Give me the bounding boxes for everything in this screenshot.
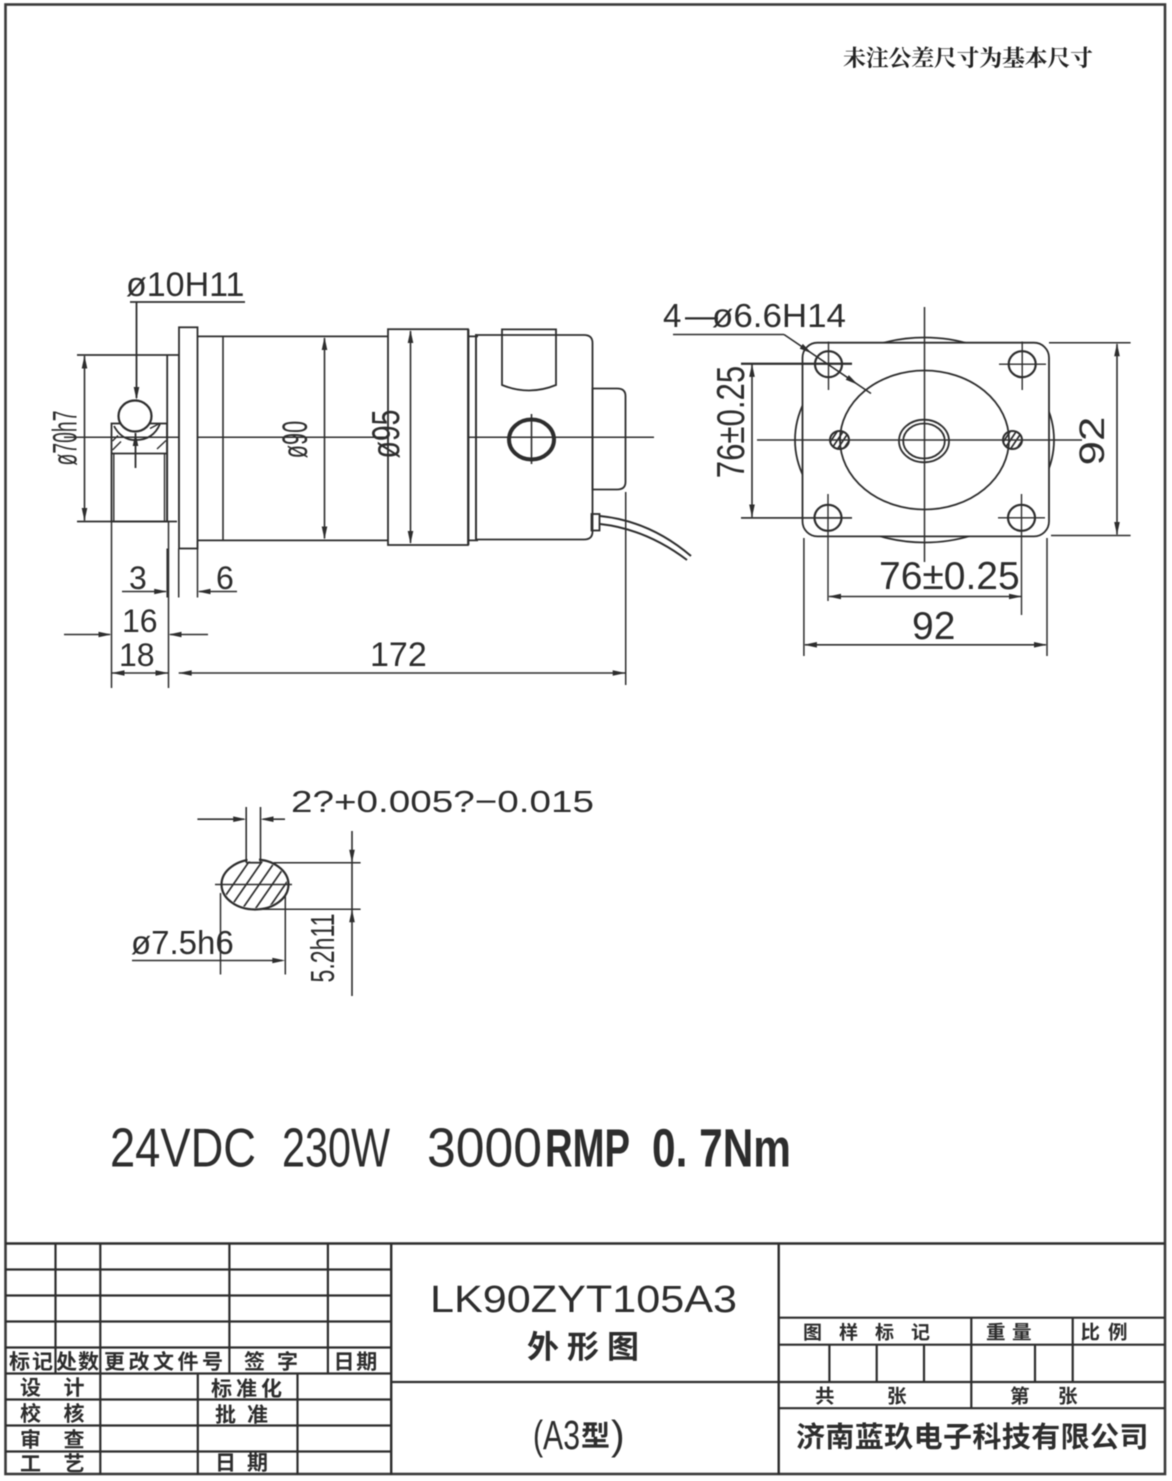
motor body ø90 cylinder (198, 336, 479, 540)
output shaft cross-section with keyway (222, 807, 289, 910)
mounting hole top-right ø6.6 (999, 342, 1046, 391)
dimension 76±0.25 (horizontal) (828, 555, 1022, 599)
dimension keyway width 2 +0.005/-0.015 (197, 784, 594, 822)
rear end cover box (593, 389, 626, 490)
front view: vertical center line (924, 307, 926, 562)
variant label (A3型) (533, 1412, 625, 1458)
svg-text:24VDC: 24VDC (110, 1117, 256, 1179)
svg-text:6: 6 (216, 560, 234, 596)
dimension 92 (vertical) (1049, 343, 1131, 536)
svg-text:(A3: (A3 (533, 1412, 580, 1458)
svg-text:ø70h7: ø70h7 (46, 411, 84, 466)
drawing title 外形图 (528, 1331, 637, 1361)
svg-text:ø7.5h6: ø7.5h6 (131, 924, 234, 961)
company name 济南蓝玖电子科技有限公司 (797, 1422, 1146, 1450)
bearing ball (119, 401, 152, 432)
dimension ø10H11 with leader arrows (126, 266, 245, 468)
dimension 4-ø6.6H14 with leader (663, 297, 871, 394)
center shaft hole (double circle) (899, 420, 949, 463)
front flange square plate (803, 343, 1050, 537)
svg-text:92: 92 (912, 605, 955, 648)
flange spigot ring (ø70 pilot) (167, 355, 179, 522)
dimension ø90 (277, 337, 327, 540)
svg-text:230W: 230W (282, 1117, 390, 1179)
shaft section hatching (210, 853, 333, 918)
dimension ø95 (365, 330, 414, 544)
extension lines below front end (112, 492, 626, 688)
dimension 18 (112, 637, 169, 676)
mounting hole bottom-right ø6.6 (998, 494, 1045, 615)
dimension 5.2h11 (256, 831, 361, 996)
svg-text:): ) (611, 1412, 625, 1458)
svg-text:3: 3 (129, 560, 147, 596)
mounting hole top-left ø6.6 (741, 342, 852, 391)
svg-text:92: 92 (1073, 417, 1112, 466)
svg-text:2?+0.005?−0.015: 2?+0.005?−0.015 (291, 784, 594, 819)
dimension 6 (198, 560, 238, 596)
svg-text:4: 4 (663, 297, 681, 334)
mounting hole bottom-left ø6.6 (741, 494, 852, 601)
title block grid (6, 1244, 1165, 1475)
svg-text:0. 7Nm: 0. 7Nm (652, 1119, 791, 1179)
brush cap on top (502, 329, 556, 390)
svg-text:16: 16 (122, 603, 158, 639)
mounting flange plate (side view) (179, 327, 198, 548)
front bearing hub (section) (112, 424, 168, 522)
svg-text:76±0.25: 76±0.25 (710, 366, 753, 479)
dimension 3 (122, 560, 167, 596)
lead wire cable (600, 516, 691, 560)
front view: ø95 body circle (behind flange) (795, 338, 1054, 543)
dimension 92 (horizontal) (804, 538, 1047, 656)
svg-text:ø6.6H14: ø6.6H14 (712, 297, 846, 334)
side hole right (hatched) (999, 431, 1029, 449)
svg-text:172: 172 (370, 636, 427, 674)
svg-text:76±0.25: 76±0.25 (879, 555, 1020, 598)
title block row labels (Chinese) (9, 1351, 376, 1472)
title block right labels (804, 1322, 1126, 1404)
shaft section center line (215, 884, 292, 886)
svg-text:ø90: ø90 (277, 421, 315, 458)
housing joint line (469, 329, 477, 545)
svg-text:ø10H11: ø10H11 (126, 266, 244, 304)
motor body ø95 section (388, 329, 468, 545)
general tolerance note (Chinese) (844, 46, 1093, 68)
terminal boss (bold circle) (509, 414, 554, 464)
svg-text:RMP: RMP (545, 1119, 630, 1179)
dimension ø70h7 (46, 355, 179, 522)
bolt/spigot circle ø70 (840, 371, 1009, 510)
svg-text:5.2h11: 5.2h11 (305, 914, 342, 983)
bearing race arcs (114, 424, 160, 440)
side view: horizontal center line (motor axis) (64, 436, 654, 438)
spec text 24VDC 230W 3000RMP 0.7Nm (110, 1117, 791, 1179)
dimension 76±0.25 (vertical) (710, 363, 852, 518)
side hole left (hatched) (826, 431, 856, 449)
svg-text:LK90ZYT105A3: LK90ZYT105A3 (430, 1279, 737, 1321)
cable gland (592, 514, 600, 531)
rear housing (commutator end) (476, 335, 593, 540)
svg-text:ø95: ø95 (365, 409, 408, 458)
svg-text:3000: 3000 (427, 1117, 542, 1179)
dimension 172 (179, 636, 626, 676)
dimension 16 (64, 603, 208, 639)
dimension ø7.5h6 (131, 893, 285, 975)
front view: horizontal center line (757, 439, 1082, 441)
svg-text:18: 18 (119, 637, 155, 673)
